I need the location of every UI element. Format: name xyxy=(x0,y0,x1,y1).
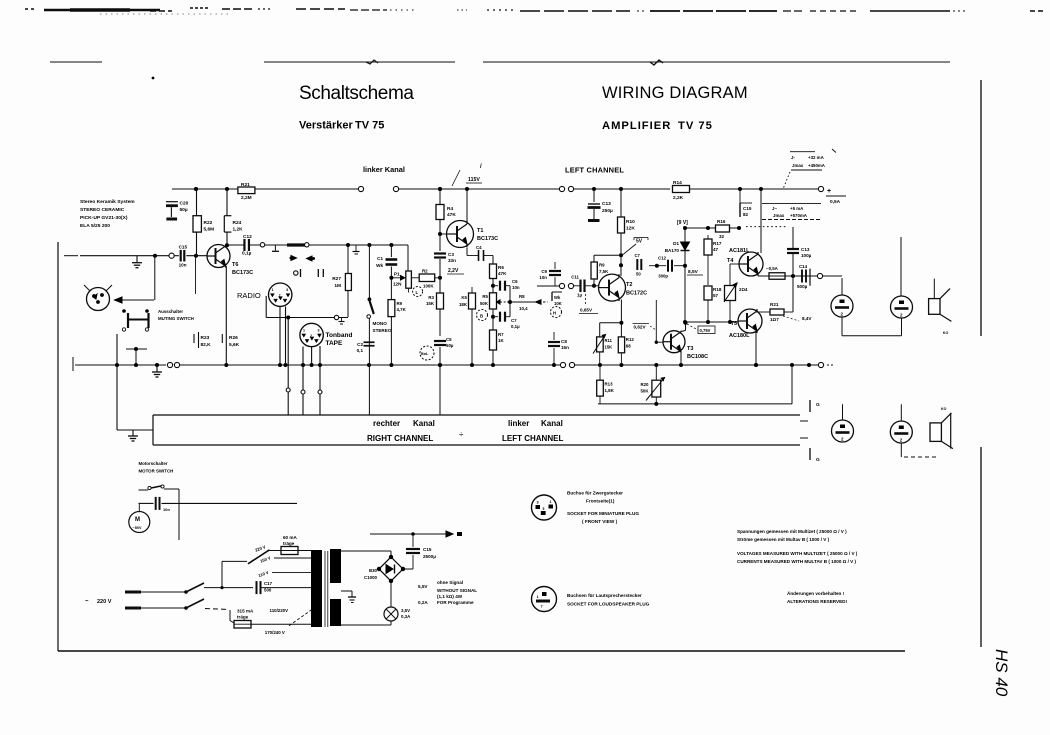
svg-text:P1: P1 xyxy=(394,272,400,277)
svg-text:VOLTAGES MEASURED WITH MULT: VOLTAGES MEASURED WITH MULTIZET ( 25000 … xyxy=(737,551,858,556)
svg-text:C20: C20 xyxy=(180,201,189,207)
svg-text:47K: 47K xyxy=(447,212,456,218)
svg-text:J-: J- xyxy=(791,155,795,160)
svg-text:MOTOR SWITCH: MOTOR SWITCH xyxy=(139,469,174,474)
svg-text:2,2M: 2,2M xyxy=(241,195,252,201)
svg-text:PICK-UP GV21-30(X): PICK-UP GV21-30(X) xyxy=(80,215,128,221)
svg-text:C15: C15 xyxy=(423,547,432,552)
svg-text:47K: 47K xyxy=(498,271,507,276)
svg-text:ohne Signal: ohne Signal xyxy=(437,580,463,585)
svg-text:15n: 15n xyxy=(561,345,569,350)
svg-text:47: 47 xyxy=(713,247,719,252)
svg-text:H: H xyxy=(553,311,556,316)
svg-text:D1: D1 xyxy=(673,241,679,246)
svg-text:0,5A: 0,5A xyxy=(830,199,841,205)
svg-text:LEFT CHANNEL: LEFT CHANNEL xyxy=(502,434,563,443)
svg-text:82: 82 xyxy=(743,212,749,217)
svg-text:Stereo Keramik System: Stereo Keramik System xyxy=(80,199,135,205)
svg-text:Kanal: Kanal xyxy=(541,419,563,428)
svg-text:3: 3 xyxy=(318,329,320,333)
svg-text:LEFT CHANNEL: LEFT CHANNEL xyxy=(565,166,624,175)
svg-text:C15: C15 xyxy=(743,206,752,211)
svg-text:ALTERATIONS RESERVED!: ALTERATIONS RESERVED! xyxy=(787,599,847,604)
svg-text:~50V: ~50V xyxy=(133,526,142,530)
svg-text:2: 2 xyxy=(279,294,281,298)
svg-text:C13: C13 xyxy=(602,201,611,207)
svg-text:ELA 5/25 200: ELA 5/25 200 xyxy=(80,223,110,229)
svg-text:7: 7 xyxy=(541,605,543,609)
svg-text:Tonband: Tonband xyxy=(326,332,353,339)
svg-text:1: 1 xyxy=(303,329,305,333)
svg-text:R10: R10 xyxy=(626,219,635,225)
svg-text:TAPE: TAPE xyxy=(326,340,344,347)
svg-text:10n: 10n xyxy=(163,507,170,512)
svg-text:12N: 12N xyxy=(393,282,402,287)
svg-text:C7: C7 xyxy=(635,253,641,258)
svg-text:STEREO CERAMIC: STEREO CERAMIC xyxy=(80,207,125,213)
svg-text:5V: 5V xyxy=(636,239,643,245)
svg-text:R16: R16 xyxy=(717,219,726,224)
svg-text:FOR Programme: FOR Programme xyxy=(437,600,474,605)
svg-text:10K: 10K xyxy=(554,301,562,306)
svg-text:C13: C13 xyxy=(801,247,810,252)
svg-text:BC173C: BC173C xyxy=(232,270,253,276)
svg-text:+5 mA: +5 mA xyxy=(790,206,804,211)
svg-text:5,6K: 5,6K xyxy=(229,342,240,348)
svg-text:B: B xyxy=(480,314,483,319)
svg-text:1: 1 xyxy=(550,500,552,504)
svg-text:7,5K: 7,5K xyxy=(599,269,609,274)
svg-text:C12: C12 xyxy=(658,256,666,261)
svg-text:32: 32 xyxy=(719,234,725,239)
svg-text:R26: R26 xyxy=(229,335,238,341)
svg-text:RIGHT CHANNEL: RIGHT CHANNEL xyxy=(367,434,433,443)
svg-text:R3: R3 xyxy=(428,295,434,300)
svg-text:linker Kanal: linker Kanal xyxy=(363,165,405,174)
svg-text:träge: träge xyxy=(237,615,249,620)
svg-text:STEREO: STEREO xyxy=(373,328,392,333)
svg-text:3,5V: 3,5V xyxy=(401,608,410,613)
svg-text:Jmax: Jmax xyxy=(773,213,785,218)
svg-text:Spannungen gemessen mit Mult: Spannungen gemessen mit Multizet ( 25000… xyxy=(737,529,847,534)
svg-text:TV 75: TV 75 xyxy=(355,120,384,132)
svg-text:WIRING DIAGRAM: WIRING DIAGRAM xyxy=(602,84,748,102)
svg-text:220 V: 220 V xyxy=(97,599,112,605)
svg-text:C14: C14 xyxy=(799,264,808,269)
svg-text:~0,5A: ~0,5A xyxy=(766,266,779,271)
svg-text:50µ: 50µ xyxy=(180,207,188,213)
svg-text:Wk: Wk xyxy=(376,263,383,268)
svg-text:~: ~ xyxy=(85,599,89,605)
svg-text:R2: R2 xyxy=(422,269,428,274)
svg-text:J~: J~ xyxy=(772,206,777,211)
svg-text:C4: C4 xyxy=(476,245,482,250)
svg-text:Ströme gemessen mit Multav: Ströme gemessen mit Multav B ( 1000 / V … xyxy=(737,537,830,542)
svg-text:33n: 33n xyxy=(448,258,456,263)
svg-text:AC181L: AC181L xyxy=(729,248,750,254)
svg-text:KO: KO xyxy=(943,331,949,335)
svg-text:Wk: Wk xyxy=(554,295,561,300)
svg-text:10n: 10n xyxy=(539,275,547,280)
svg-text:G: G xyxy=(816,402,820,408)
svg-text:TV 75: TV 75 xyxy=(678,120,713,132)
svg-text:C12: C12 xyxy=(243,234,252,240)
svg-text:0,3A: 0,3A xyxy=(401,614,411,619)
svg-text:C1000: C1000 xyxy=(364,575,377,580)
svg-text:R13: R13 xyxy=(605,382,614,387)
svg-text:2: 2 xyxy=(310,334,312,338)
svg-text:C8: C8 xyxy=(561,339,567,344)
svg-text:AC180L: AC180L xyxy=(729,333,750,339)
svg-text:R21: R21 xyxy=(770,302,779,307)
svg-text:0,2A: 0,2A xyxy=(418,600,428,605)
svg-text:250µ: 250µ xyxy=(602,208,613,214)
svg-text:( FRONT VIEW ): ( FRONT VIEW ) xyxy=(582,519,618,524)
svg-text:10n: 10n xyxy=(512,285,520,290)
svg-text:C15: C15 xyxy=(179,245,188,250)
svg-text:10,4: 10,4 xyxy=(519,306,528,311)
svg-text:G: G xyxy=(816,457,820,463)
svg-text:T4: T4 xyxy=(727,258,734,264)
svg-text:AMPLIFIER: AMPLIFIER xyxy=(602,120,671,132)
svg-text:R21: R21 xyxy=(241,182,250,188)
svg-text:100K: 100K xyxy=(423,284,434,289)
svg-text:Buchsen für Lautsprecherstec: Buchsen für Lautsprecherstecker xyxy=(567,593,642,598)
svg-text:500: 500 xyxy=(264,588,272,593)
svg-text:R4: R4 xyxy=(447,206,453,212)
svg-text:MONO: MONO xyxy=(373,321,388,326)
svg-text:2,2V: 2,2V xyxy=(448,268,459,274)
svg-text:+32 mA: +32 mA xyxy=(808,155,825,160)
svg-text:R8: R8 xyxy=(519,294,525,299)
svg-text:C7: C7 xyxy=(511,318,517,323)
svg-text:8,4V: 8,4V xyxy=(802,316,812,321)
svg-text:115V: 115V xyxy=(468,177,480,183)
svg-text:L: L xyxy=(416,290,419,295)
svg-text:8,5V: 8,5V xyxy=(688,269,699,275)
svg-text:T6: T6 xyxy=(232,262,238,268)
svg-text:+: + xyxy=(827,188,831,195)
svg-text:1Ω7: 1Ω7 xyxy=(770,317,779,322)
svg-text:1M: 1M xyxy=(334,283,341,289)
svg-text:18K: 18K xyxy=(459,302,468,307)
svg-text:linker: linker xyxy=(508,419,529,428)
svg-text:2Ω4: 2Ω4 xyxy=(739,287,748,292)
svg-text:R23: R23 xyxy=(201,335,210,341)
svg-text:C6: C6 xyxy=(512,279,518,284)
svg-text:BnL: BnL xyxy=(421,352,429,356)
svg-text:träge: träge xyxy=(283,541,295,546)
svg-text:BC108C: BC108C xyxy=(687,354,708,360)
svg-text:0,75V: 0,75V xyxy=(700,328,711,333)
svg-text:÷: ÷ xyxy=(459,430,464,439)
svg-text:R12: R12 xyxy=(626,337,635,342)
svg-text:Änderungen vorbehalten !: Änderungen vorbehalten ! xyxy=(787,590,845,596)
svg-text:C17: C17 xyxy=(264,581,273,586)
svg-text:C2: C2 xyxy=(357,342,363,347)
svg-text:5,5V: 5,5V xyxy=(418,584,428,589)
svg-text:Verstärker: Verstärker xyxy=(299,120,354,132)
svg-text:Ausschalter: Ausschalter xyxy=(158,309,183,314)
svg-text:50µ: 50µ xyxy=(446,343,454,348)
svg-text:2500µ: 2500µ xyxy=(423,554,436,559)
svg-text:R9: R9 xyxy=(397,301,403,306)
svg-text:300p: 300p xyxy=(658,274,668,279)
svg-text:CURRENTS MEASURED WITH MULT: CURRENTS MEASURED WITH MULTAV B ( 1000 Ω… xyxy=(737,559,857,564)
svg-text:R17: R17 xyxy=(713,241,722,246)
svg-text:0,1: 0,1 xyxy=(357,348,364,353)
svg-text:0,65V: 0,65V xyxy=(580,308,593,313)
svg-text:+450mA: +450mA xyxy=(808,163,826,168)
svg-text:12K: 12K xyxy=(626,226,635,232)
svg-text:C1: C1 xyxy=(377,256,383,261)
svg-text:82,K: 82,K xyxy=(201,342,212,348)
svg-text:R24: R24 xyxy=(233,220,242,226)
svg-text:K5: K5 xyxy=(461,295,467,300)
svg-text:1: 1 xyxy=(272,288,274,292)
svg-text:BA170: BA170 xyxy=(665,248,680,253)
svg-text:3: 3 xyxy=(286,288,288,292)
svg-text:5,6M: 5,6M xyxy=(204,227,215,233)
svg-text:SOCKET FOR LOUDSPEAKER PLUG: SOCKET FOR LOUDSPEAKER PLUG xyxy=(567,602,650,607)
svg-text:50: 50 xyxy=(636,272,641,277)
svg-text:HS 40: HS 40 xyxy=(992,649,1011,697)
svg-text:1K: 1K xyxy=(498,338,504,343)
svg-text:315 mA: 315 mA xyxy=(237,609,254,614)
svg-text:1,2K: 1,2K xyxy=(233,227,244,233)
svg-text:R6: R6 xyxy=(498,265,504,270)
svg-text:0,1µ: 0,1µ xyxy=(511,324,520,329)
svg-text:170/240 V: 170/240 V xyxy=(265,630,285,635)
svg-text:MUTING SWITCH: MUTING SWITCH xyxy=(158,316,194,321)
svg-text:Frontseite(1): Frontseite(1) xyxy=(586,499,615,504)
svg-text:RADIO: RADIO xyxy=(237,291,261,300)
svg-text:BC172C: BC172C xyxy=(626,291,647,297)
svg-text:15K: 15K xyxy=(605,345,613,350)
svg-text:R27: R27 xyxy=(332,276,341,282)
svg-text:1,8K: 1,8K xyxy=(605,388,615,393)
svg-text:+570mA: +570mA xyxy=(790,213,808,218)
svg-text:Buchse für Zwergstecker: Buchse für Zwergstecker xyxy=(567,491,623,496)
svg-text:1µ: 1µ xyxy=(577,293,582,298)
svg-text:Motorschalter: Motorschalter xyxy=(139,461,168,466)
svg-text:C11: C11 xyxy=(571,275,579,280)
svg-text:C3: C3 xyxy=(448,252,454,257)
svg-text:10n: 10n xyxy=(179,263,187,268)
svg-text:0,62V: 0,62V xyxy=(634,325,647,330)
svg-text:R18: R18 xyxy=(713,287,722,292)
svg-text:R9: R9 xyxy=(599,263,605,268)
svg-text:WITHOUT SIGNAL: WITHOUT SIGNAL xyxy=(437,588,477,593)
svg-text:R20: R20 xyxy=(640,382,649,387)
svg-text:(1,1 kΩ) 4W: (1,1 kΩ) 4W xyxy=(437,594,463,599)
svg-text:M: M xyxy=(135,517,140,523)
svg-text:57: 57 xyxy=(713,293,719,298)
svg-text:500µ: 500µ xyxy=(797,284,808,289)
svg-text:B30: B30 xyxy=(369,568,378,573)
svg-text:[9 V]: [9 V] xyxy=(677,220,688,226)
svg-text:R14: R14 xyxy=(673,180,682,186)
svg-text:4,7K: 4,7K xyxy=(397,307,407,312)
svg-text:50K: 50K xyxy=(480,301,489,306)
svg-text:5: 5 xyxy=(543,507,545,511)
svg-text:T1: T1 xyxy=(477,228,483,234)
svg-text:KO: KO xyxy=(941,407,947,411)
svg-text:110/220V: 110/220V xyxy=(270,608,289,613)
svg-text:1: 1 xyxy=(537,595,539,599)
svg-text:T2: T2 xyxy=(626,282,632,288)
svg-text:R5: R5 xyxy=(482,294,488,299)
svg-text:3: 3 xyxy=(537,501,539,505)
svg-text:Schaltschema: Schaltschema xyxy=(299,83,414,104)
svg-text:68: 68 xyxy=(626,344,631,349)
svg-text:0,1µ: 0,1µ xyxy=(242,251,252,257)
svg-text:R7: R7 xyxy=(498,332,504,337)
svg-text:T3: T3 xyxy=(687,346,693,352)
svg-text:SOCKET FOR MINIATURE PLUG: SOCKET FOR MINIATURE PLUG xyxy=(567,511,639,516)
svg-text:60 mA: 60 mA xyxy=(283,535,297,540)
svg-text:BC173C: BC173C xyxy=(477,236,498,242)
svg-text:100µ: 100µ xyxy=(801,253,812,258)
svg-text:R11: R11 xyxy=(605,338,613,343)
svg-text:50K: 50K xyxy=(640,389,649,394)
svg-text:C5: C5 xyxy=(446,337,452,342)
svg-text:Jmax: Jmax xyxy=(792,163,804,168)
svg-text:Kanal: Kanal xyxy=(413,419,435,428)
svg-text:C9: C9 xyxy=(541,269,547,274)
svg-text:15K: 15K xyxy=(426,301,435,306)
svg-text:2,2K: 2,2K xyxy=(673,195,684,201)
svg-text:rechter: rechter xyxy=(373,419,400,428)
svg-text:R22: R22 xyxy=(204,220,213,226)
